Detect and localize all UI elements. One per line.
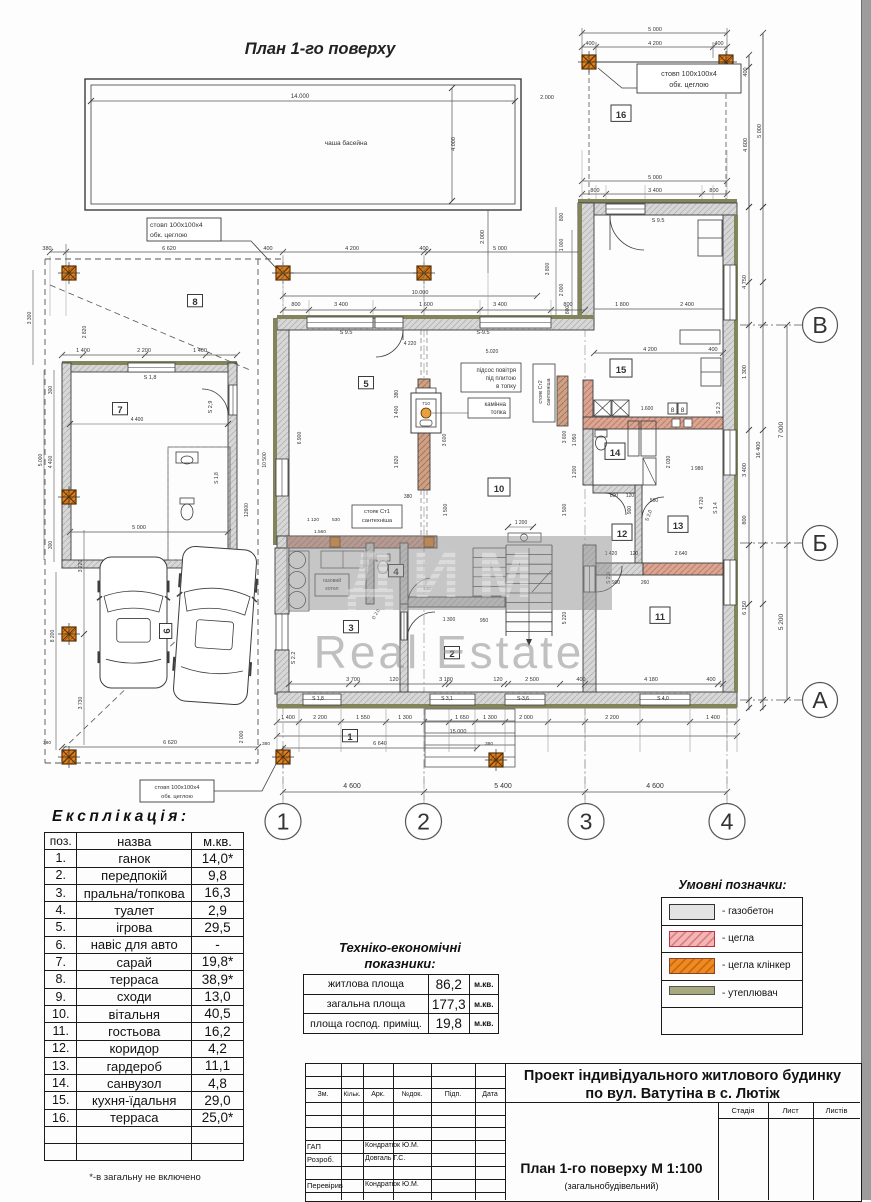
- svg-text:800: 800: [610, 493, 619, 499]
- svg-text:1 000: 1 000: [559, 239, 565, 252]
- svg-text:1.560: 1.560: [314, 529, 326, 535]
- svg-text:6 620: 6 620: [162, 246, 176, 252]
- svg-text:1 650: 1 650: [455, 715, 469, 721]
- svg-text:1 980: 1 980: [691, 466, 704, 472]
- svg-text:1 500: 1 500: [562, 504, 568, 517]
- svg-text:710: 710: [422, 401, 430, 407]
- svg-text:8 200: 8 200: [50, 630, 56, 643]
- svg-text:3 400: 3 400: [648, 188, 662, 194]
- svg-text:1 800: 1 800: [615, 302, 629, 308]
- svg-text:обк. цеглою: обк. цеглою: [161, 794, 193, 800]
- svg-text:10 500: 10 500: [262, 452, 268, 468]
- svg-text:2 400: 2 400: [680, 302, 694, 308]
- svg-text:1 300: 1 300: [443, 617, 456, 623]
- svg-text:4 400: 4 400: [131, 417, 144, 423]
- svg-text:камінна: камінна: [484, 402, 506, 408]
- svg-text:підсос повітря: підсос повітря: [476, 368, 516, 374]
- svg-text:В: В: [812, 312, 827, 338]
- svg-text:120: 120: [626, 493, 635, 499]
- svg-text:S 2,9: S 2,9: [208, 401, 214, 414]
- svg-text:S 2,0: S 2,0: [644, 509, 654, 522]
- svg-text:стовп 100х100х4: стовп 100х100х4: [661, 69, 717, 78]
- svg-text:1 300: 1 300: [483, 715, 497, 721]
- svg-text:380: 380: [262, 741, 270, 747]
- svg-text:400: 400: [419, 246, 428, 252]
- svg-text:3 400: 3 400: [742, 463, 748, 477]
- svg-text:4: 4: [721, 809, 734, 835]
- svg-text:2 200: 2 200: [137, 348, 151, 354]
- svg-text:5 000: 5 000: [132, 525, 146, 531]
- svg-text:4 600: 4 600: [343, 783, 361, 790]
- svg-text:обк. цеглою: обк. цеглою: [150, 231, 187, 239]
- svg-text:1 400: 1 400: [281, 715, 295, 721]
- svg-text:2 000: 2 000: [239, 731, 245, 744]
- svg-text:950: 950: [480, 618, 489, 624]
- svg-text:560: 560: [650, 498, 659, 504]
- svg-text:2 200: 2 200: [605, 715, 619, 721]
- svg-text:2 030: 2 030: [666, 456, 672, 469]
- svg-text:S-9.5: S-9.5: [476, 330, 489, 336]
- svg-text:1 400: 1 400: [76, 348, 90, 354]
- svg-text:S 1,8: S 1,8: [214, 472, 220, 484]
- svg-text:14.000: 14.000: [291, 94, 310, 100]
- svg-text:1 550: 1 550: [356, 715, 370, 721]
- svg-text:План 1-го поверху: План 1-го поверху: [245, 40, 396, 58]
- svg-text:2 640: 2 640: [675, 551, 688, 557]
- svg-text:380: 380: [42, 246, 51, 252]
- svg-text:4 600: 4 600: [646, 783, 664, 790]
- svg-text:11: 11: [655, 612, 666, 623]
- svg-text:10: 10: [494, 484, 505, 495]
- svg-text:3 400: 3 400: [334, 302, 348, 308]
- svg-text:стояк Ст2: стояк Ст2: [538, 380, 544, 403]
- svg-text:10.000: 10.000: [412, 290, 429, 296]
- svg-text:1 400: 1 400: [706, 715, 720, 721]
- svg-text:2.000: 2.000: [480, 230, 486, 244]
- svg-text:S 2.3: S 2.3: [716, 402, 722, 414]
- svg-text:1: 1: [277, 809, 290, 835]
- svg-text:6.900: 6.900: [297, 432, 303, 445]
- svg-text:14: 14: [610, 448, 621, 459]
- svg-text:5.000: 5.000: [38, 454, 44, 467]
- svg-text:S 3,1: S 3,1: [441, 696, 453, 702]
- svg-text:5 000: 5 000: [648, 175, 662, 181]
- svg-text:1.600: 1.600: [641, 406, 654, 412]
- svg-text:в топку: в топку: [496, 384, 516, 390]
- svg-text:3 600: 3 600: [442, 434, 448, 447]
- svg-text:S 1,8: S 1,8: [312, 696, 324, 702]
- svg-text:S 2.2: S 2.2: [291, 652, 297, 665]
- svg-text:4 220: 4 220: [404, 341, 417, 347]
- svg-text:А: А: [812, 687, 828, 713]
- svg-text:4 200: 4 200: [345, 246, 359, 252]
- svg-text:400: 400: [714, 41, 723, 47]
- svg-text:топка: топка: [491, 410, 507, 416]
- svg-text:1 500: 1 500: [443, 504, 449, 517]
- svg-text:8: 8: [681, 407, 685, 414]
- svg-text:4 200: 4 200: [648, 41, 662, 47]
- svg-text:12600: 12600: [244, 503, 250, 517]
- svg-text:800: 800: [709, 188, 718, 194]
- svg-text:5 220: 5 220: [562, 612, 568, 625]
- svg-text:сантехнішa: сантехнішa: [546, 378, 552, 405]
- svg-text:ДИМ: ДИМ: [347, 537, 550, 611]
- svg-text:16 400: 16 400: [756, 442, 762, 459]
- svg-text:1 120: 1 120: [307, 517, 319, 523]
- svg-text:2 820: 2 820: [82, 326, 88, 339]
- svg-text:3 730: 3 730: [78, 697, 84, 710]
- svg-text:6 640: 6 640: [373, 741, 387, 747]
- svg-text:3 300: 3 300: [27, 312, 33, 325]
- svg-text:2 000: 2 000: [559, 284, 565, 297]
- svg-text:2 200: 2 200: [313, 715, 327, 721]
- svg-text:5 000: 5 000: [648, 27, 662, 33]
- svg-text:1 600: 1 600: [419, 302, 433, 308]
- svg-text:1 820: 1 820: [394, 456, 400, 469]
- svg-text:1 050: 1 050: [572, 434, 578, 447]
- svg-text:13: 13: [673, 521, 684, 532]
- svg-text:3 720: 3 720: [78, 560, 84, 573]
- svg-text:4 200: 4 200: [643, 347, 657, 353]
- svg-text:800: 800: [291, 302, 300, 308]
- svg-text:120: 120: [630, 551, 639, 557]
- svg-text:5 200: 5 200: [778, 613, 785, 630]
- svg-text:4 180: 4 180: [644, 677, 658, 683]
- svg-text:1 400: 1 400: [394, 406, 400, 419]
- svg-text:5 000: 5 000: [757, 124, 763, 138]
- svg-text:6 150: 6 150: [742, 601, 748, 615]
- svg-text:3: 3: [580, 809, 593, 835]
- svg-text:стовп 100х100х4: стовп 100х100х4: [155, 785, 201, 791]
- svg-text:530: 530: [332, 517, 340, 523]
- svg-text:5.020: 5.020: [486, 349, 499, 355]
- svg-text:16: 16: [616, 110, 627, 121]
- svg-text:S 1.4: S 1.4: [713, 502, 719, 514]
- svg-text:Real Estate: Real Estate: [314, 626, 585, 678]
- svg-text:800: 800: [563, 302, 572, 308]
- svg-text:сантехнішa: сантехнішa: [362, 518, 393, 524]
- svg-text:800: 800: [559, 213, 565, 222]
- svg-text:15.000: 15.000: [450, 729, 467, 735]
- svg-text:7 000: 7 000: [778, 421, 785, 438]
- svg-text:7: 7: [117, 405, 122, 416]
- svg-text:S 1,8: S 1,8: [144, 375, 157, 381]
- svg-text:5: 5: [363, 379, 369, 390]
- svg-text:S 9.5: S 9.5: [652, 218, 665, 224]
- svg-text:400: 400: [263, 246, 272, 252]
- svg-text:1 300: 1 300: [398, 715, 412, 721]
- svg-text:стовп 100х100х4: стовп 100х100х4: [150, 222, 203, 229]
- svg-text:4 750: 4 750: [742, 275, 748, 289]
- svg-text:під плитою: під плитою: [486, 376, 517, 382]
- svg-text:260: 260: [641, 580, 650, 586]
- svg-text:S 4,0: S 4,0: [657, 696, 669, 702]
- svg-text:400: 400: [708, 347, 717, 353]
- svg-text:400: 400: [585, 41, 594, 47]
- svg-text:380: 380: [394, 390, 400, 399]
- svg-text:стояк Ст1: стояк Ст1: [364, 509, 390, 515]
- svg-text:380: 380: [485, 741, 493, 747]
- svg-text:2 000: 2 000: [519, 715, 533, 721]
- svg-text:12: 12: [617, 529, 628, 540]
- svg-text:900: 900: [612, 580, 621, 586]
- svg-text:4 400: 4 400: [48, 456, 54, 469]
- svg-text:5 000: 5 000: [493, 246, 507, 252]
- svg-text:S-3,6: S-3,6: [517, 696, 529, 702]
- svg-text:400: 400: [743, 67, 749, 76]
- svg-text:1 200: 1 200: [572, 466, 578, 479]
- svg-text:обк. цеглою: обк. цеглою: [669, 80, 709, 89]
- svg-text:300: 300: [48, 386, 54, 395]
- svg-text:1: 1: [347, 732, 353, 743]
- svg-text:380: 380: [404, 494, 413, 500]
- svg-text:6 620: 6 620: [163, 740, 177, 746]
- svg-text:4 720: 4 720: [699, 497, 705, 510]
- svg-text:380: 380: [43, 740, 51, 746]
- svg-text:5 400: 5 400: [494, 783, 512, 790]
- svg-text:900: 900: [627, 506, 633, 515]
- svg-text:1 200: 1 200: [515, 520, 528, 526]
- svg-text:чаша басейна: чаша басейна: [325, 139, 368, 147]
- svg-text:Б: Б: [812, 530, 827, 556]
- svg-text:400: 400: [706, 677, 715, 683]
- svg-text:3 600: 3 600: [562, 431, 568, 444]
- svg-text:S 9.5: S 9.5: [340, 330, 353, 336]
- svg-text:4 600: 4 600: [743, 138, 749, 152]
- svg-text:3 800: 3 800: [545, 263, 551, 276]
- svg-text:8: 8: [192, 297, 197, 308]
- svg-text:15: 15: [616, 365, 627, 376]
- svg-text:2.000: 2.000: [540, 95, 554, 101]
- svg-text:800: 800: [742, 515, 748, 524]
- svg-text:800: 800: [590, 188, 599, 194]
- svg-text:3 400: 3 400: [493, 302, 507, 308]
- svg-text:300: 300: [48, 541, 54, 550]
- svg-text:1 300: 1 300: [742, 365, 748, 379]
- svg-text:6: 6: [162, 628, 173, 633]
- svg-text:2: 2: [417, 809, 430, 835]
- svg-text:8: 8: [671, 407, 675, 414]
